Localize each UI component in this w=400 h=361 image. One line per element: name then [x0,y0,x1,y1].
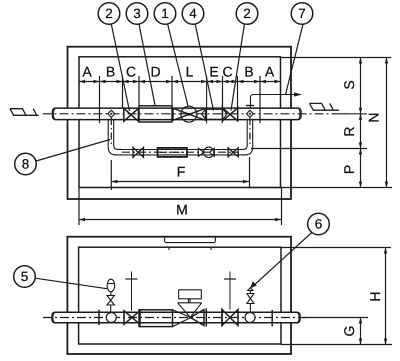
tee fitting circle left (elevation) [106,313,116,323]
strainer valve (1) plan [173,106,206,122]
svg-text:M: M [176,201,188,217]
svg-text:R: R [341,126,357,136]
callout circle 2 (left) [98,3,129,111]
svg-text:S: S [341,80,357,89]
union fitting (4) plan [202,76,228,123]
main pipe (elevation) [52,312,300,323]
dimension H line [384,248,387,345]
gate valve (2) plan right [223,108,238,121]
bypass riser right (plan) [241,120,253,155]
downstream flange (elevation) [271,310,273,326]
air cock (6) stack [247,288,254,313]
pipe break symbol left [10,109,39,116]
labels H G [341,291,383,336]
bypass riser left (plan) [108,120,121,155]
callout circle 5 [14,266,107,289]
bypass valve plan (X right) [228,148,238,157]
main pipe (plan view) [53,108,302,120]
svg-text:1: 1 [161,6,169,21]
svg-text:3: 3 [133,6,141,21]
meter box inner wall (elevation) [79,247,281,344]
callout circle 2 (right) [231,3,258,111]
right-side extension lines (plan) [248,58,392,188]
svg-text:2: 2 [105,6,113,21]
callout circle 8 [15,140,110,175]
svg-text:C: C [126,64,136,80]
dimension letters A B C D L E C B A [82,64,275,80]
svg-text:A: A [265,64,275,80]
dimension extension lines down to pipe [100,88,261,123]
dimension F [111,157,249,190]
air valve (5): cock [107,296,114,313]
flow direction arrow (7 target) [251,92,303,108]
gate valve right (elevation) [222,272,238,326]
pipe centerline (elevation) [43,317,308,319]
bypass valve plan (X left) [133,147,144,157]
tee node right (plan) [246,110,253,117]
main pipe centerline (plan) [43,113,346,115]
dimension G [303,318,368,345]
svg-text:8: 8 [22,157,30,172]
svg-text:4: 4 [189,6,197,21]
water meter (elevation) [139,310,173,327]
dimension H extension lines [281,248,392,345]
air valve (5): body [107,279,115,295]
gate valve left (elevation) [124,272,140,325]
bypass meter plan [158,148,187,157]
svg-text:2: 2 [243,6,251,21]
meter box outer wall (plan) [68,47,292,199]
callout circle 3 [126,3,155,105]
meter box inner wall (plan) [79,57,281,188]
meter box outer wall (elevation) [67,237,291,354]
bypass pipe (plan) [120,150,241,155]
svg-text:7: 7 [298,6,306,21]
callout circle 4 [182,3,213,111]
bypass ball valve cluster plan [198,147,214,157]
svg-text:P: P [341,165,357,174]
callout circle 6 [250,213,329,287]
dimension S R P line [359,58,362,188]
svg-text:5: 5 [21,269,29,284]
svg-text:D: D [150,64,160,80]
riser centerlines (plan) [110,118,112,147]
labels S R P N [341,80,382,174]
valve stem cross (plan, right tee) [246,105,254,107]
upstream flange (elevation) [98,310,100,326]
dimension M [79,188,282,225]
gate valve (2) plan left [124,108,139,121]
tee fitting circle right (elevation) [245,313,255,323]
callout circle 7 [286,3,313,95]
dimension chain A B C D L E C B A [79,76,281,88]
meter outlet cone [173,310,191,327]
svg-text:A: A [82,64,92,80]
flange pair / spool (elevation) [206,309,222,327]
svg-text:G: G [341,326,357,337]
svg-text:F: F [177,164,186,180]
svg-text:N: N [366,112,382,122]
svg-text:H: H [367,291,383,301]
svg-text:B: B [244,64,253,80]
svg-text:C: C [222,64,232,80]
svg-text:B: B [106,64,115,80]
meter register head [178,290,202,318]
svg-text:6: 6 [315,217,323,232]
dimension N line [385,58,388,188]
dimension chain arrowheads [79,80,281,83]
callout circle 1 [154,3,188,106]
lid handle recess [165,237,216,250]
svg-text:E: E [209,64,218,80]
tee node left (plan) [108,110,115,117]
svg-text:L: L [186,64,194,80]
water meter (3) plan [139,106,172,122]
outlet valve cone (elevation) [190,310,204,326]
pipe break symbol right [310,103,340,110]
bypass centerline (plan) [122,151,239,153]
